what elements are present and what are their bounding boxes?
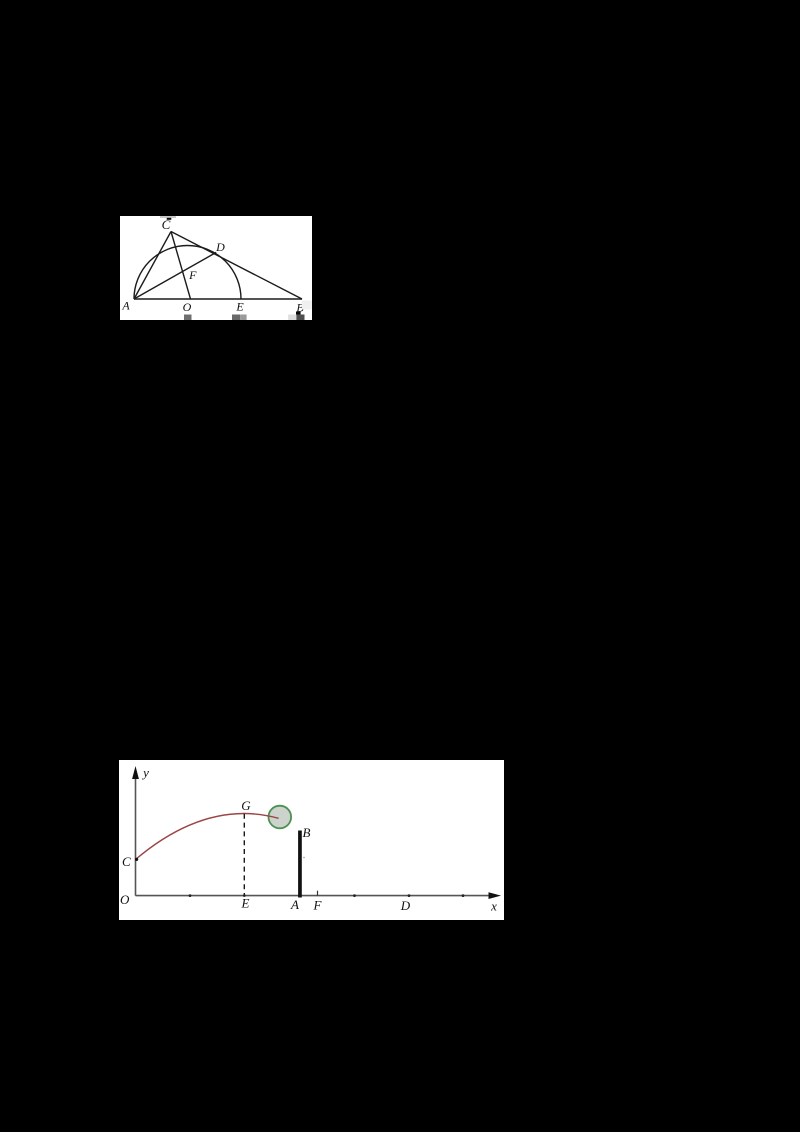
x axis: [136, 895, 494, 897]
line AD: [134, 252, 216, 299]
trajectory curve C to G to ball: [136, 814, 279, 860]
svg-text:G: G: [241, 798, 251, 813]
svg-text:A: A: [121, 299, 130, 313]
svg-text:B: B: [303, 825, 311, 840]
artifact black mark under B: [296, 312, 301, 315]
point C dot: [135, 858, 138, 861]
artifact grey bar above C: [160, 216, 176, 218]
svg-text:D: D: [215, 240, 225, 254]
artifact faint patch right of B: [302, 300, 312, 309]
figure panel 1: circle geometry diagram: [120, 216, 312, 320]
svg-text:E: E: [235, 300, 244, 314]
axis unit dot 3: [462, 894, 465, 897]
line CB: [171, 232, 302, 300]
y axis: [135, 777, 137, 896]
svg-text:D: D: [400, 898, 411, 913]
dashed line GE: [243, 814, 245, 896]
axis dot at D: [408, 894, 411, 897]
axis unit dot 2: [353, 894, 356, 897]
x axis arrowhead: [489, 892, 502, 899]
circle O semicircle on diameter AE: [134, 246, 241, 300]
svg-text:F: F: [188, 268, 197, 282]
pole AB thick bar: [298, 831, 302, 898]
tick at F: [317, 891, 319, 896]
svg-text:F: F: [313, 898, 323, 913]
svg-text:O: O: [120, 892, 130, 907]
artifact square under B dark: [296, 315, 304, 321]
wire line AB: [134, 298, 302, 300]
axis unit dot 1: [189, 894, 192, 897]
artifact square under E light: [240, 315, 246, 321]
artifact square under B light: [288, 315, 296, 321]
line AC: [134, 232, 171, 300]
svg-text:E: E: [241, 896, 250, 911]
axis dot at E base: [243, 894, 246, 897]
figure panel 2: projectile graph: [119, 760, 504, 920]
faint speck near pole: [303, 857, 305, 859]
svg-text:C: C: [162, 217, 171, 232]
ball green circle: [269, 806, 292, 829]
svg-text:y: y: [141, 765, 149, 780]
svg-text:x: x: [490, 899, 497, 914]
artifact square under O: [184, 315, 192, 321]
y axis arrowhead: [132, 766, 139, 779]
artifact black blob above C: [167, 218, 172, 220]
line CO: [171, 232, 191, 300]
svg-text:O: O: [183, 300, 192, 314]
artifact square under E dark: [232, 315, 240, 321]
svg-text:A: A: [290, 897, 299, 912]
svg-text:C: C: [122, 854, 131, 869]
